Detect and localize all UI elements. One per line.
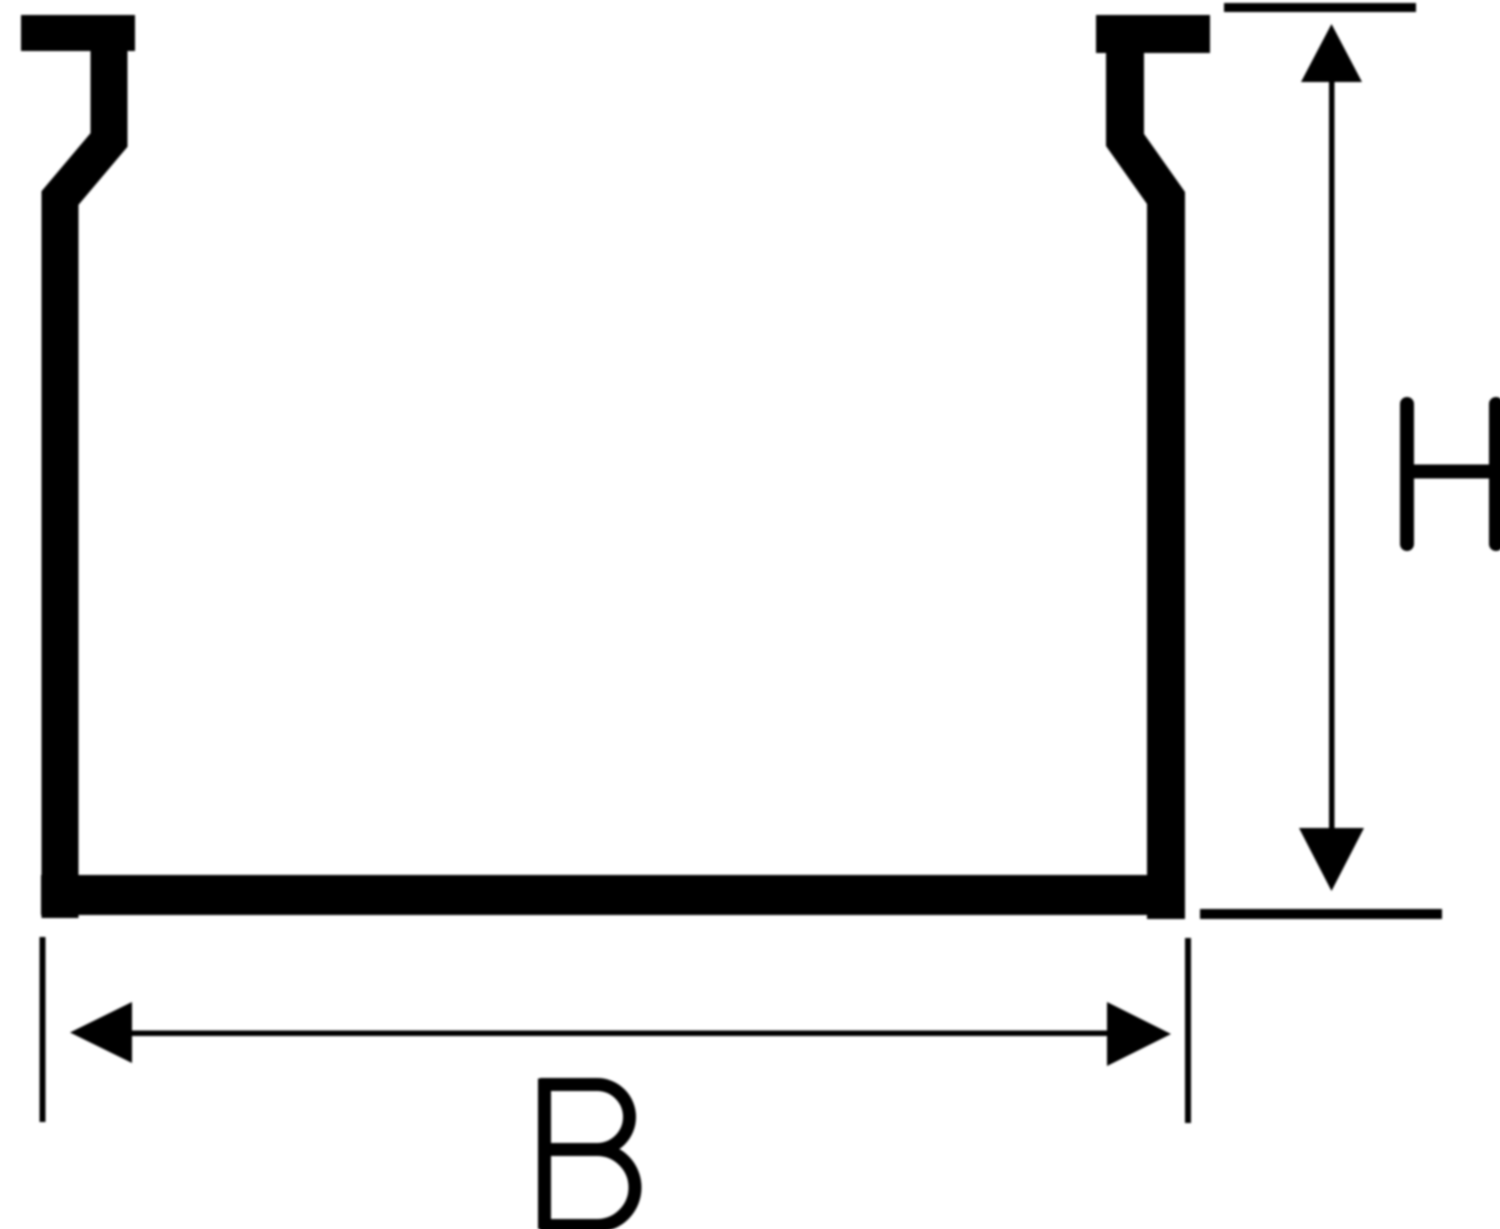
label B (540, 1079, 635, 1229)
B dimension right arrowhead (1107, 1002, 1171, 1066)
H dimension up arrowhead (1301, 24, 1362, 82)
right flange top bar (1096, 15, 1210, 53)
bottom plate (41, 875, 1185, 915)
B dimension left arrowhead (70, 1002, 132, 1063)
left flange top bar (21, 15, 135, 51)
H dimension bottom extension line (1200, 909, 1442, 919)
B dimension right extension line (1185, 938, 1191, 1123)
H dimension top extension line (1224, 3, 1416, 12)
B dimension left extension line (40, 937, 46, 1122)
H dimension vertical shaft (1329, 60, 1335, 850)
label H (1407, 404, 1496, 544)
H dimension down arrowhead (1299, 828, 1364, 891)
right flange stem + bend + right wall (1125, 53, 1166, 919)
left flange stem + bend + left wall (60, 51, 109, 918)
B dimension horizontal shaft (110, 1031, 1120, 1037)
